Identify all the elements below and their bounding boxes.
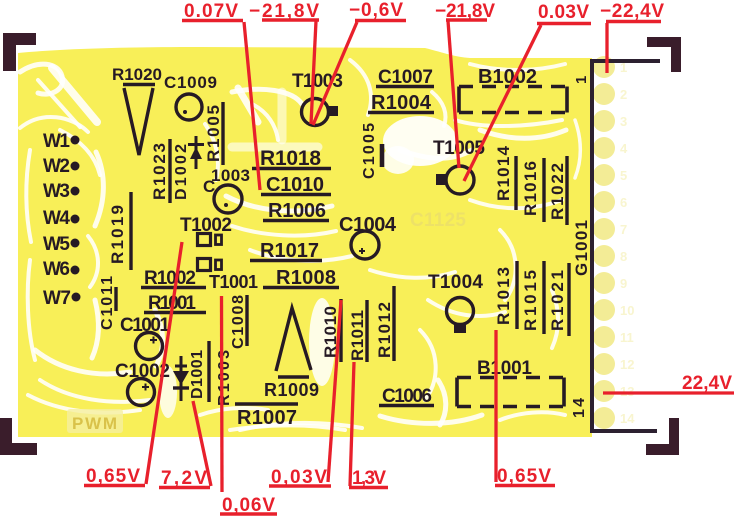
diode D1001 symbol (173, 356, 189, 401)
svg-text:1003: 1003 (211, 166, 250, 185)
svg-text:2: 2 (620, 87, 627, 102)
svg-text:R1004: R1004 (371, 92, 432, 114)
svg-text:G1001: G1001 (572, 220, 591, 276)
probe line 1,3V (350, 362, 354, 486)
svg-text:C1008: C1008 (230, 295, 247, 349)
svg-text:R1015: R1015 (521, 270, 540, 331)
svg-text:W4: W4 (43, 208, 70, 229)
probe line 0.07V (244, 22, 260, 190)
svg-text:7: 7 (620, 222, 627, 237)
svg-text:R1023: R1023 (150, 143, 169, 200)
probe line 0,06V (220, 296, 224, 492)
svg-text:R1020: R1020 (112, 65, 162, 84)
corner bracket top-left (3, 33, 36, 71)
svg-text:C1125: C1125 (410, 210, 466, 231)
svg-text:R1018: R1018 (260, 147, 321, 170)
corner bracket top-right (647, 37, 681, 72)
svg-text:W3: W3 (43, 181, 70, 202)
svg-text:−22,4V: −22,4V (600, 1, 664, 22)
connector pads column (593, 56, 615, 429)
svg-text:−0,6V: −0,6V (349, 0, 403, 21)
svg-text:10: 10 (620, 303, 634, 318)
svg-text:R1007: R1007 (237, 407, 297, 429)
battery B1002 box (459, 87, 567, 113)
svg-text:R1011: R1011 (348, 310, 367, 361)
svg-text:D1001: D1001 (189, 350, 206, 399)
traces group (white clearances) (20, 60, 580, 430)
faint pad numbers (620, 60, 635, 426)
probe line -21,8V right (448, 21, 459, 168)
svg-text:0.03V: 0.03V (538, 2, 589, 23)
corner bracket bottom-right (646, 418, 679, 455)
PWM mark (67, 409, 123, 433)
connector G1001 outline (592, 61, 660, 431)
probe line -22,4V (605, 23, 608, 73)
svg-text:T1004: T1004 (428, 272, 483, 293)
svg-text:R1005: R1005 (204, 105, 223, 162)
node line D1001/R1003 (207, 341, 210, 402)
svg-text:3: 3 (620, 114, 627, 129)
transistor T1002 symbol (198, 234, 211, 246)
svg-text:C1009: C1009 (164, 73, 217, 92)
svg-text:R1009: R1009 (264, 380, 319, 400)
svg-text:PWM: PWM (72, 414, 117, 433)
svg-text:6: 6 (620, 195, 627, 210)
svg-text:8: 8 (620, 249, 627, 264)
svg-text:W7: W7 (43, 288, 71, 309)
svg-text:C1005: C1005 (361, 123, 378, 179)
probe line 0,03V top (464, 25, 541, 181)
probe line -0,6V (313, 22, 357, 125)
svg-text:W2: W2 (43, 156, 70, 177)
corner bracket bottom-left (0, 418, 37, 455)
svg-text:T1001: T1001 (209, 272, 258, 292)
resistor R1007 (235, 402, 298, 406)
svg-text:C1011: C1011 (99, 276, 116, 330)
resistor R1009 symbol (276, 308, 311, 371)
probe line 22,4V (603, 391, 734, 394)
svg-text:R1016: R1016 (521, 161, 540, 216)
svg-text:R1021: R1021 (548, 270, 567, 331)
transistor T1003 (302, 99, 329, 126)
svg-text:R1012: R1012 (375, 302, 394, 358)
probe line 7,2V (193, 401, 211, 486)
red measurement lines (146, 21, 734, 492)
svg-text:R1022: R1022 (548, 163, 567, 220)
transistor T1001 symbol (198, 259, 211, 271)
svg-text:1: 1 (573, 76, 590, 84)
battery B1001 box (457, 378, 564, 407)
svg-text:W1: W1 (43, 131, 70, 152)
PCB board body (18, 47, 592, 437)
svg-text:5: 5 (620, 168, 627, 183)
svg-text:R1003: R1003 (216, 350, 233, 406)
diode D1002 symbol (188, 136, 204, 169)
svg-text:11: 11 (620, 330, 634, 345)
transistor T1004 (447, 298, 474, 325)
svg-text:R1014: R1014 (494, 145, 513, 201)
probe line 0,03V bottom (328, 300, 341, 482)
svg-text:W5: W5 (43, 234, 70, 255)
svg-text:W6: W6 (43, 259, 70, 280)
svg-text:22,4V: 22,4V (682, 373, 732, 394)
svg-text:4: 4 (620, 141, 628, 156)
probe line -21,8V left (311, 21, 316, 124)
probe line 0,65V left (146, 242, 182, 484)
probe line 0,65V right (494, 330, 497, 482)
capacitor C1003 (214, 185, 242, 213)
svg-text:12: 12 (620, 357, 634, 372)
svg-text:R1013: R1013 (494, 267, 513, 325)
svg-text:R1019: R1019 (108, 205, 127, 264)
svg-text:9: 9 (620, 276, 627, 291)
svg-text:14: 14 (620, 411, 635, 426)
transistor T1005 (446, 166, 474, 194)
svg-text:D1002: D1002 (173, 144, 190, 200)
